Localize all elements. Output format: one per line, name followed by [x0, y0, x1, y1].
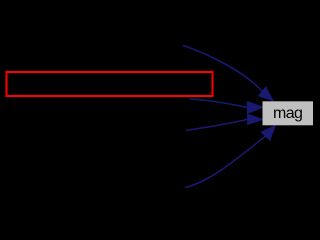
arrowhead edge2 [247, 102, 263, 114]
arrowhead edge4 [261, 126, 275, 141]
wire edge3 [186, 119, 248, 130]
wire edge1 top curve [183, 45, 262, 91]
node mag [263, 101, 314, 125]
wire edge2 from red node [190, 99, 248, 108]
arrowhead edge3 [248, 114, 263, 124]
wire edge4 bottom curve [185, 136, 266, 187]
arrowhead edge1 [259, 87, 274, 101]
svg-text:mag: mag [273, 105, 302, 122]
node current (red outline) [7, 72, 213, 96]
